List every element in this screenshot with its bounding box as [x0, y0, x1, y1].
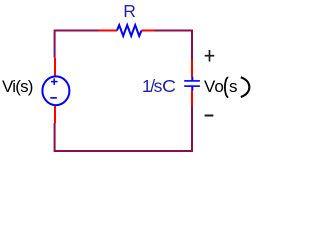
capacitor C1 lead bottom (red): [191, 90, 193, 106]
output polarity plus sign: [205, 50, 215, 62]
resistor R1 lead right (red): [142, 30, 155, 32]
svg-text:R: R: [123, 1, 136, 21]
node label Vo(s) open paren: [225, 77, 228, 97]
capacitor C1 stub top (blue): [191, 77, 193, 81]
svg-text:Vi(s): Vi(s): [2, 77, 33, 96]
node label Vo(s) close paren: [241, 77, 250, 97]
svg-text:C: C: [162, 76, 176, 96]
source V1 lead top (red): [54, 58, 56, 77]
capacitor C1 plate top: [184, 80, 200, 82]
wire top-right maroon segment: [155, 31, 193, 61]
capacitor C1 plate bottom: [184, 85, 200, 87]
resistor R1 zigzag body: [117, 25, 142, 36]
svg-text:Vo: Vo: [204, 77, 224, 96]
resistor R1 lead left (red): [99, 30, 118, 32]
source V1 minus sign: [50, 97, 57, 99]
svg-text:1/s: 1/s: [142, 76, 163, 96]
wire bottom maroon (left-bottom-right loop): [55, 107, 192, 152]
wire top-left maroon segment: [55, 31, 99, 58]
svg-text:s: s: [229, 77, 238, 96]
capacitor C1 stub bottom (blue): [191, 86, 193, 91]
output polarity minus sign: [205, 115, 214, 117]
source V1 plus sign: [51, 78, 58, 85]
capacitor C1 lead top (red): [191, 60, 193, 77]
source V1 circle: [42, 76, 69, 105]
source V1 lead bottom (red): [54, 105, 56, 123]
